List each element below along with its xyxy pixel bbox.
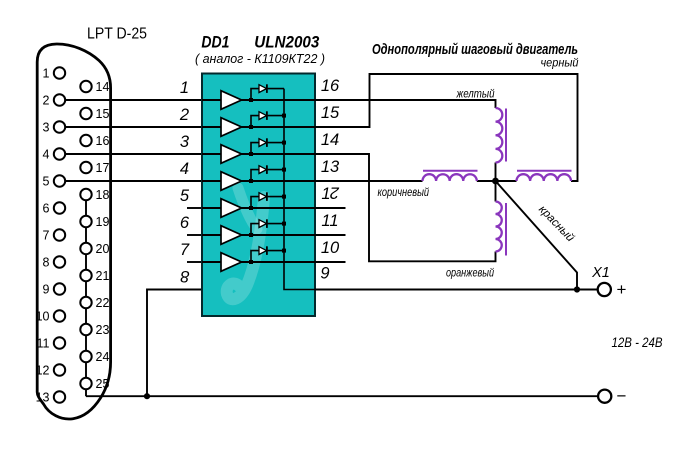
wire channel 2 through chip: [202, 126, 315, 128]
pin 6 of LPT connector: [54, 202, 65, 213]
node diode stub junction channel 2: [249, 125, 253, 129]
buffer amplifier A3: [221, 145, 242, 164]
svg-text:4: 4: [43, 147, 50, 161]
wire top coil to center node: [495, 163, 497, 182]
svg-text:13: 13: [321, 158, 340, 176]
svg-text:оранжевый: оранжевый: [446, 268, 494, 280]
svg-text:2: 2: [43, 93, 50, 107]
svg-text:15: 15: [96, 107, 110, 121]
svg-text:черный: черный: [541, 58, 580, 70]
svg-text:−: −: [617, 387, 627, 406]
diode VD7: [259, 247, 267, 255]
pin 20 of LPT connector: [80, 243, 91, 254]
node bus junction channel 3: [282, 141, 286, 145]
svg-text:18: 18: [96, 188, 110, 202]
svg-text:19: 19: [96, 215, 110, 229]
wire stub output pin 11: [315, 234, 346, 236]
node diode stub junction channel 6: [249, 233, 253, 237]
diode VD3: [259, 139, 267, 147]
svg-text:LPT D-25: LPT D-25: [87, 26, 147, 43]
wire diode cathode channel 4: [268, 169, 284, 171]
svg-text:+: +: [617, 280, 627, 299]
svg-text:11: 11: [37, 336, 50, 350]
svg-text:25: 25: [96, 377, 110, 391]
node diode stub junction channel 5: [249, 206, 253, 210]
wire black: pin15 over the top to right winding: [315, 74, 578, 181]
svg-text:9: 9: [320, 265, 329, 283]
svg-text:1: 1: [43, 66, 50, 80]
inductor L2 bottom coil (orange phase): [496, 202, 502, 252]
svg-text:14: 14: [96, 80, 110, 94]
wire channel 4 through chip: [202, 180, 315, 182]
svg-text:1: 1: [321, 185, 330, 203]
wire diode cathode channel 2: [268, 115, 284, 117]
wire brown: pin13 to left coil: [315, 180, 423, 182]
wire diode cathode channel 6: [268, 223, 284, 225]
wire diode cathode channel 3: [268, 142, 284, 144]
svg-text:4: 4: [180, 160, 189, 178]
pin 25 of LPT connector: [80, 378, 91, 389]
wire diode anode stub channel 1: [251, 89, 259, 100]
wire ground bus to minus terminal: [86, 395, 598, 397]
svg-text:коричневый: коричневый: [378, 187, 430, 199]
terminal X1 minus: [598, 390, 611, 403]
svg-text:17: 17: [96, 161, 110, 175]
node diode stub junction channel 1: [249, 98, 253, 102]
wire diode anode stub channel 5: [251, 197, 259, 208]
buffer amplifier A4: [221, 172, 242, 191]
wire diode cathode channel 5: [268, 196, 284, 198]
pin 15 of LPT connector: [80, 108, 91, 119]
pin 5 of LPT connector: [54, 175, 65, 186]
wire stub DD1 input 5: [187, 207, 202, 209]
pin 19 of LPT connector: [80, 216, 91, 227]
driver IC DD1 ULN2003 body: [202, 74, 315, 317]
svg-text:11: 11: [321, 212, 338, 230]
diode VD2: [259, 112, 267, 120]
diode VD6: [259, 220, 267, 228]
svg-text:12: 12: [36, 363, 50, 377]
watermark swoosh on chip: [227, 188, 264, 299]
node diode stub junction channel 7: [249, 260, 253, 264]
pin 2 of LPT connector: [54, 94, 65, 105]
wire stub output pin 10: [315, 261, 346, 263]
svg-text:3: 3: [180, 133, 190, 151]
svg-text:12В - 24В: 12В - 24В: [612, 335, 663, 350]
wire diode anode stub channel 4: [251, 170, 259, 181]
buffer amplifier A1: [221, 91, 242, 110]
terminal X1 plus: [598, 283, 611, 296]
pin 4 of LPT connector: [54, 148, 65, 159]
svg-text:X1: X1: [591, 265, 610, 281]
svg-text:2: 2: [330, 184, 340, 202]
svg-text:7: 7: [180, 241, 190, 259]
wire diode cathode channel 1: [268, 88, 284, 90]
buffer amplifier A2: [221, 118, 242, 137]
inductor L3 left coil (brown phase): [423, 174, 477, 181]
pin 13 of LPT connector: [54, 391, 65, 402]
svg-text:3: 3: [43, 120, 50, 134]
wire channel 3 through chip: [202, 153, 315, 155]
svg-text:16: 16: [321, 77, 340, 95]
pin 24 of LPT connector: [80, 351, 91, 362]
svg-text:14: 14: [321, 131, 339, 149]
wire right coil to center node: [496, 180, 517, 182]
wire pin8 ground drop: [147, 290, 202, 397]
svg-text:10: 10: [321, 239, 340, 257]
wire diode common bus to pin 9: [284, 89, 315, 290]
svg-text:13: 13: [36, 390, 50, 404]
svg-text:6: 6: [180, 214, 190, 232]
node bus junction channel 5: [282, 195, 286, 199]
pin 17 of LPT connector: [80, 162, 91, 173]
svg-text:10: 10: [36, 309, 50, 323]
svg-text:Однополярный шаговый двигатель: Однополярный шаговый двигатель: [372, 42, 578, 58]
junction ground: [144, 393, 150, 399]
pin 16 of LPT connector: [80, 135, 91, 146]
node bus junction channel 2: [282, 114, 286, 118]
inductor L1 top coil (yellow phase): [496, 108, 503, 163]
wire stub DD1 input 7: [187, 261, 202, 263]
svg-text:5: 5: [43, 174, 50, 188]
svg-text:7: 7: [43, 228, 50, 242]
svg-text:15: 15: [321, 104, 340, 122]
svg-text:20: 20: [96, 242, 110, 256]
pin 7 of LPT connector: [54, 229, 65, 240]
wire channel 5 through chip: [202, 207, 315, 209]
connector LPT DB-25 outline: [37, 44, 110, 419]
node bus junction channel 6: [282, 222, 286, 226]
pin 9 of LPT connector: [54, 283, 65, 294]
wire bottom coil to center node: [495, 181, 497, 202]
svg-text:23: 23: [96, 323, 110, 337]
pin 23 of LPT connector: [80, 324, 91, 335]
diode VD4: [259, 166, 267, 174]
svg-text:( аналог - К1109КТ22 ): ( аналог - К1109КТ22 ): [195, 52, 325, 66]
wire yellow: pin16 to top coil: [315, 100, 496, 108]
wire channel 7 through chip: [202, 261, 315, 263]
node bus junction channel 7: [282, 249, 286, 253]
svg-text:9: 9: [43, 282, 50, 296]
wire stub DD1 input 6: [187, 234, 202, 236]
pin 3 of LPT connector: [54, 121, 65, 132]
node diode stub junction channel 3: [249, 152, 253, 156]
pin 10 of LPT connector: [54, 310, 65, 321]
wire stub output pin 12: [315, 207, 346, 209]
svg-text:DD1: DD1: [201, 34, 229, 52]
junction on plus wire: [574, 286, 580, 292]
svg-text:8: 8: [180, 267, 190, 285]
svg-text:1: 1: [180, 79, 189, 97]
inductor L4 right coil (black phase): [517, 174, 572, 181]
wire diode anode stub channel 2: [251, 116, 259, 127]
pin 14 of LPT connector: [80, 81, 91, 92]
wire ground bus pins 18-25: [85, 195, 87, 397]
pin 22 of LPT connector: [80, 297, 91, 308]
svg-text:ULN2003: ULN2003: [254, 34, 319, 52]
wire red: center tap to X1 plus: [496, 181, 578, 290]
node motor center tap: [492, 178, 499, 185]
buffer amplifier A7: [221, 253, 242, 272]
svg-text:6: 6: [43, 201, 50, 215]
svg-text:8: 8: [43, 255, 50, 269]
buffer amplifier A6: [221, 226, 242, 245]
svg-text:желтый: желтый: [456, 89, 495, 101]
wire diode cathode channel 7: [268, 250, 284, 252]
svg-text:16: 16: [96, 134, 110, 148]
buffer amplifier A5: [221, 199, 242, 218]
svg-text:22: 22: [96, 296, 110, 310]
wire pin 9 to X1 plus terminal: [315, 289, 598, 291]
diode VD1: [259, 85, 267, 93]
wire channel 1 through chip: [202, 99, 315, 101]
svg-text:5: 5: [180, 187, 190, 205]
node diode stub junction channel 4: [249, 179, 253, 183]
wire left coil to center node: [477, 180, 496, 182]
node bus junction channel 4: [282, 168, 286, 172]
svg-text:2: 2: [179, 106, 189, 124]
wire LPT pin 2 to DD1 input 1: [64, 99, 203, 101]
wire diode anode stub channel 3: [251, 143, 259, 154]
wire diode anode stub channel 7: [251, 251, 259, 262]
wire orange: pin14 under the bottom to bottom coil: [315, 154, 496, 261]
pin 12 of LPT connector: [54, 364, 65, 375]
wire LPT pin 5 to DD1 input 4: [64, 180, 203, 182]
wire channel 6 through chip: [202, 234, 315, 236]
svg-text:21: 21: [96, 269, 110, 283]
pin 1 of LPT connector: [54, 67, 65, 78]
pin 18 of LPT connector: [80, 189, 91, 200]
pin 11 of LPT connector: [54, 337, 65, 348]
wire diode anode stub channel 6: [251, 224, 259, 235]
diode VD5: [259, 193, 267, 201]
pin 21 of LPT connector: [80, 270, 91, 281]
pin 8 of LPT connector: [54, 256, 65, 267]
wire LPT pin 4 to DD1 input 3: [64, 153, 203, 155]
wire LPT pin 3 to DD1 input 2: [64, 126, 203, 128]
svg-text:24: 24: [96, 350, 110, 364]
